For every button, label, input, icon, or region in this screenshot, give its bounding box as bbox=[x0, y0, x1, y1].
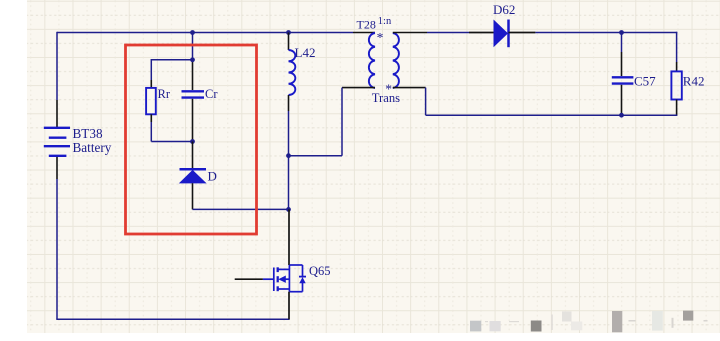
wire: primary return vertical bbox=[341, 88, 343, 156]
capacitor C57 bbox=[612, 33, 656, 116]
junction: drain node bbox=[286, 207, 291, 212]
svg-text:Battery: Battery bbox=[73, 140, 112, 155]
watermark blocks bbox=[470, 311, 708, 333]
capacitor Cr bbox=[182, 60, 219, 142]
wire: D anode to L42 node bbox=[193, 208, 289, 210]
wire: primary return horizontal bbox=[289, 155, 343, 157]
inductor L42 bbox=[289, 33, 316, 112]
svg-text:C57: C57 bbox=[634, 74, 656, 89]
svg-text:BT38: BT38 bbox=[73, 126, 103, 141]
wire: Q65 gate pin (blue) bbox=[263, 278, 274, 280]
wire: node down to drain node bbox=[288, 156, 290, 210]
wire: snubber left vertical lower bbox=[150, 122, 152, 142]
wire: snubber bottom horizontal bbox=[151, 141, 192, 143]
battery BT38 bbox=[44, 100, 112, 179]
wire: C57 node to R42 top bbox=[622, 32, 678, 34]
wire: snubber left vertical upper bbox=[150, 59, 152, 80]
wire: secondary bottom rail bbox=[426, 114, 678, 116]
wire: top rail mid segment bbox=[193, 32, 289, 34]
wire: Q65 source to bottom rail bbox=[288, 292, 290, 320]
svg-text:R42: R42 bbox=[683, 73, 705, 88]
wire: secondary top to D62 bbox=[427, 32, 469, 34]
svg-text:L42: L42 bbox=[295, 45, 316, 60]
svg-text:Trans: Trans bbox=[372, 91, 400, 105]
wire: left rail lower bbox=[56, 179, 58, 319]
wire: Cr branch from top rail bbox=[192, 33, 194, 60]
wire: left rail down from top corner bbox=[56, 32, 58, 100]
diode D bbox=[179, 142, 217, 210]
wire: snubber top horizontal bbox=[151, 59, 192, 61]
wire: secondary return vertical bbox=[425, 88, 427, 116]
svg-text:Q65: Q65 bbox=[309, 264, 331, 278]
wire: bottom rail bbox=[56, 318, 289, 320]
resistor R42 bbox=[671, 32, 704, 116]
wire: L42 bottom to node bbox=[288, 111, 290, 156]
junction: snubber top node bbox=[190, 57, 195, 62]
wire: Q65 gate stub bbox=[235, 278, 263, 280]
junction: top rail at L42 branch bbox=[286, 30, 291, 35]
transistor Q65 bbox=[274, 264, 331, 292]
wire: top rail left segment bbox=[57, 32, 193, 34]
junction: L42 / primary return node bbox=[286, 153, 291, 158]
svg-text:1:n: 1:n bbox=[378, 16, 392, 27]
svg-text:*: * bbox=[377, 30, 384, 45]
diode D62 bbox=[469, 2, 535, 47]
transformer T28 bbox=[342, 16, 427, 105]
red highlight box bbox=[126, 45, 257, 234]
svg-text:D62: D62 bbox=[493, 2, 515, 17]
svg-text:T28: T28 bbox=[357, 18, 376, 32]
junction: snubber bottom node bbox=[190, 139, 195, 144]
wire: D62 cathode to C57 node bbox=[535, 32, 621, 34]
resistor Rr bbox=[146, 80, 171, 122]
svg-text:Rr: Rr bbox=[158, 87, 171, 101]
svg-text:Cr: Cr bbox=[205, 87, 218, 101]
junction: output top node at C57 bbox=[619, 30, 624, 35]
junction: top rail at Cr branch bbox=[190, 30, 195, 35]
wire: top rail to transformer primary bbox=[289, 32, 354, 34]
svg-text:D: D bbox=[208, 168, 217, 183]
wire: drain node down to Q65 bbox=[288, 209, 290, 265]
junction: output bottom node at C57 bbox=[619, 113, 624, 118]
